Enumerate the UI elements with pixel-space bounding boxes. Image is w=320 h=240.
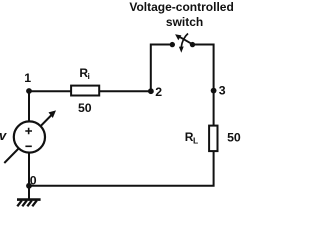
- svg-text:2: 2: [155, 85, 162, 99]
- svg-text:3: 3: [219, 84, 226, 98]
- node 1: [26, 88, 32, 94]
- svg-text:50: 50: [227, 131, 241, 145]
- wire RL bottom to bottom rail to node 0: [29, 151, 214, 186]
- voltage source v: arrowhead: [49, 110, 57, 118]
- node 2: [148, 88, 154, 94]
- resistor Ri body: [71, 86, 99, 96]
- voltage source v: circle body: [14, 121, 45, 152]
- wire node 3 down to RL: [213, 90, 215, 127]
- switch left terminal: [170, 42, 175, 47]
- svg-text:switch: switch: [166, 15, 203, 29]
- svg-text:v: v: [0, 128, 7, 143]
- wire node 1 down to source: [28, 90, 30, 123]
- switch blade with arrow: [179, 36, 193, 44]
- voltage source v: arrow shaft: [4, 115, 51, 163]
- voltage source v: minus sign: [25, 145, 31, 147]
- svg-text:0: 0: [30, 173, 37, 187]
- svg-text:Voltage-controlled: Voltage-controlled: [129, 0, 233, 14]
- switch control curved arrow: [181, 34, 188, 48]
- wire switch right terminal to node 3: [193, 45, 214, 92]
- ground: [17, 200, 41, 207]
- svg-text:50: 50: [78, 101, 92, 115]
- wire node 2 up to switch left terminal: [151, 45, 173, 93]
- wire node1 to Ri: [29, 90, 72, 92]
- wire source to node 0 and ground: [28, 151, 30, 199]
- node 0: [26, 183, 32, 189]
- voltage source v: plus sign: [25, 128, 32, 135]
- resistor RL body: [209, 126, 217, 152]
- switch right terminal: [190, 42, 195, 47]
- wire Ri to node 2: [99, 90, 151, 92]
- node 3: [211, 88, 217, 94]
- svg-text:1: 1: [24, 71, 31, 85]
